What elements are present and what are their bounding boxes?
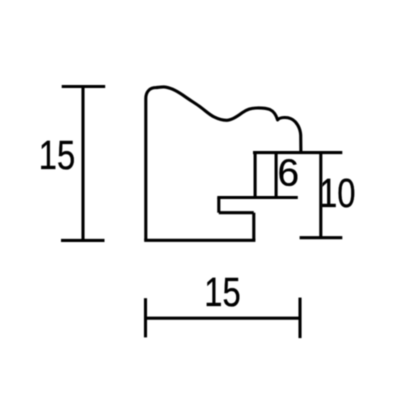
bottom edge bbox=[144, 239, 255, 242]
step horizontal 2 bbox=[219, 211, 254, 214]
right dimension line bbox=[319, 153, 322, 238]
vertical B bbox=[275, 153, 278, 198]
left dimension line bbox=[81, 87, 84, 241]
svg-text:10: 10 bbox=[319, 169, 355, 215]
step horizontal bbox=[217, 196, 297, 199]
profile outline: left edge + wavy top bbox=[146, 87, 301, 240]
step vertical 2 bbox=[252, 213, 255, 241]
svg-text:6: 6 bbox=[278, 152, 300, 195]
ledge horizontal (profile + dim extension) bbox=[253, 151, 342, 154]
step vertical 1 bbox=[217, 198, 220, 213]
svg-text:15: 15 bbox=[39, 131, 75, 177]
svg-text:15: 15 bbox=[204, 268, 240, 314]
bottom dimension line bbox=[146, 317, 301, 320]
vertical A bbox=[254, 153, 257, 198]
